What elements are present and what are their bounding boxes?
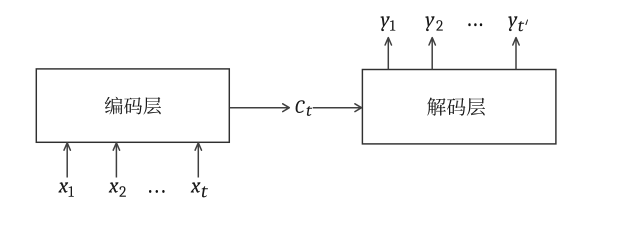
- output arrow y1: [387, 40, 389, 70]
- decoder label 解码层: [427, 98, 485, 116]
- encoder label 编码层: [105, 97, 161, 115]
- label x2: [109, 182, 126, 196]
- input arrow x3: [197, 145, 199, 178]
- label x1: [58, 182, 74, 196]
- wire Ct to decoder: [313, 107, 360, 109]
- label yt': [508, 16, 524, 31]
- arrowhead into Ct: [283, 104, 290, 112]
- wire encoder to Ct: [230, 107, 288, 109]
- output arrow y3: [515, 40, 517, 70]
- context label Ct: [296, 100, 313, 116]
- label y1: [380, 16, 395, 31]
- label xt: [191, 182, 208, 197]
- input arrow x2: [115, 145, 117, 178]
- arrowhead into decoder: [355, 104, 362, 112]
- bottom ellipsis: [149, 190, 151, 193]
- label y2: [425, 16, 443, 31]
- decoder box: [362, 70, 556, 144]
- top ellipsis: [468, 23, 470, 26]
- encoder box: [36, 69, 229, 142]
- output arrow y2: [431, 40, 433, 70]
- input arrow x1: [66, 145, 68, 178]
